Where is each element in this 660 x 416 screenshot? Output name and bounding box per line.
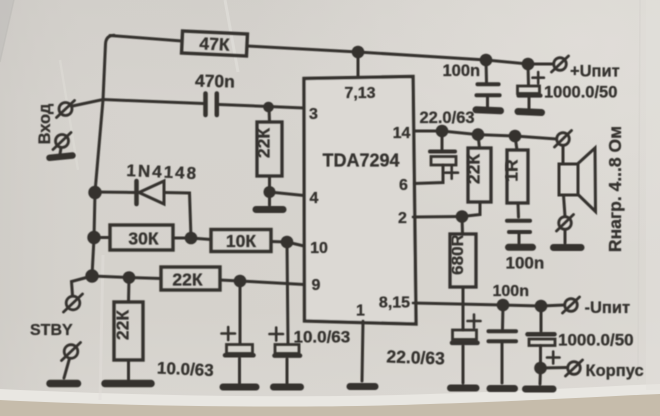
svg-text:STBY: STBY	[30, 322, 73, 339]
svg-text:2: 2	[398, 210, 407, 227]
capacitor 10.0/63 (pin 10) minus plate	[275, 353, 301, 358]
wire: speaker to lower terminal	[564, 195, 566, 217]
resistor 30K	[110, 225, 173, 250]
resistor 22K (feedback)	[468, 148, 491, 202]
capacitor 10.0/63 (pin 9) plus plate box	[227, 345, 253, 354]
wire: STBY node to switch terminal	[72, 276, 93, 296]
ground (pin 4 node)	[256, 206, 283, 213]
svg-text:47К: 47К	[199, 33, 230, 54]
wire: chassis node to ground	[539, 368, 543, 384]
capacitor 22.0/63 bootstrap plus plate box	[431, 157, 456, 166]
svg-text:14: 14	[393, 125, 411, 142]
svg-text:10.0/63: 10.0/63	[294, 328, 351, 347]
capacitor 22.0/63 (feedback) plus plate box	[453, 330, 477, 340]
svg-text:1000.0/50: 1000.0/50	[558, 331, 634, 350]
wire: 100n (-rail) top lead	[501, 305, 505, 329]
plus sign of bootstrap 22/63	[446, 167, 459, 179]
terminal input shield	[53, 133, 71, 150]
ground (input shield)	[50, 156, 73, 158]
wire: 22K pulldown to ground	[127, 360, 130, 379]
plus sign of pin10 10/63	[270, 328, 284, 341]
wire: 100n bypass to ground	[486, 97, 489, 107]
wire: 30K to node	[173, 237, 191, 240]
wire: 22K to pin9 node	[220, 280, 240, 281]
wire: left net to diode cathode	[95, 191, 136, 195]
diode 1N4148 triangle	[139, 181, 164, 204]
svg-text:1N4148: 1N4148	[126, 161, 198, 183]
wire: 1R to zobel 100n	[517, 203, 521, 217]
ground (under +rail 100n)	[476, 110, 501, 111]
wire: 470n to IC pin 3	[219, 105, 304, 109]
svg-text:6: 6	[399, 177, 408, 194]
capacitor 1000.0/50 (+rail) plus plate box	[518, 86, 540, 94]
wire: 10K to pin10 node	[271, 240, 287, 244]
wire: input to 470n	[73, 100, 204, 107]
wire: IC pin 1 to ground	[362, 321, 363, 381]
wire: 1000/50 to chassis node	[539, 346, 542, 369]
svg-text:22К: 22К	[113, 310, 133, 340]
capacitor 1000.0/50 (-rail) plus plate box	[529, 339, 555, 346]
capacitor 22.0/63 (feedback) minus plate	[452, 341, 478, 346]
terminal input signal	[57, 101, 75, 118]
capacitor 470n plates	[206, 94, 217, 116]
plus sign of +rail 1000/50	[533, 72, 544, 83]
wire: 22K feedback top lead	[478, 135, 480, 148]
svg-text:Rнагр. 4...8 Ом: Rнагр. 4...8 Ом	[605, 126, 625, 252]
ground (-rail 100n)	[490, 385, 515, 392]
wire: pin9 node to IC pin 9	[240, 281, 304, 285]
wire: 1R top lead	[515, 136, 517, 150]
plus sign of -rail 1000/50	[547, 352, 560, 364]
wire: riser from top rail to IC pins 7,13	[357, 52, 360, 79]
wire: chassis node to terminal	[541, 366, 568, 370]
svg-text:Вход: Вход	[36, 103, 54, 144]
svg-text:3: 3	[309, 106, 318, 123]
resistor 10K	[211, 230, 271, 252]
wire: 1000/50 (-rail) top lead	[540, 306, 543, 331]
capacitor 100n (zobel) plates	[507, 221, 530, 232]
ground (zobel)	[509, 244, 533, 251]
svg-text:22.0/63: 22.0/63	[386, 346, 445, 368]
resistor 47K	[182, 31, 248, 56]
svg-text:9: 9	[312, 277, 321, 294]
svg-text:TDA7294: TDA7294	[323, 151, 400, 171]
plus sign of pin9 10/63	[222, 327, 236, 340]
terminal STBY upper	[64, 294, 83, 312]
svg-text:1: 1	[356, 303, 365, 320]
capacitor 1000.0/50 (+rail) minus plate	[519, 94, 541, 98]
resistor 22K (pulldown)	[114, 302, 143, 360]
wire: pulldown node into 22K	[127, 278, 131, 303]
capacitor 10.0/63 (pin 10) plus plate box	[275, 345, 299, 354]
wire: STBY lower terminal to ground	[64, 359, 70, 379]
wire: 22K bottom to pin4 node	[268, 176, 271, 192]
ground (chassis node)	[526, 386, 554, 393]
wire: 22K feedback bottom to pin 2 node	[462, 202, 480, 217]
wire: pin10 node to IC pin 10	[287, 242, 304, 246]
wire: speaker lower terminal to ground	[564, 230, 567, 244]
capacitor 10.0/63 (pin 9) minus plate	[225, 353, 254, 358]
junction node dots	[85, 46, 547, 375]
ground (pin 9 cap)	[223, 384, 256, 391]
wire: pin2 node into 680R	[461, 217, 465, 235]
terminal speaker +	[555, 131, 572, 148]
resistor 1R	[507, 150, 528, 203]
svg-text:10К: 10К	[226, 231, 256, 251]
capacitor 1000.0/50 (-rail) minus plate	[528, 332, 555, 337]
speaker horn	[578, 148, 596, 212]
ground (22/63 cap)	[451, 385, 477, 392]
svg-text:30К: 30К	[128, 229, 158, 249]
wire: cap to ground	[238, 359, 241, 384]
capacitor 100n (-rail) plates	[489, 331, 517, 341]
wire: diode anode to 30K/10K node	[164, 193, 191, 239]
wire: pin9 node down to 10.0/63 cap	[239, 281, 242, 344]
svg-text:100n: 100n	[493, 283, 529, 300]
capacitor 1000.0/50 (+rail) lead	[527, 64, 531, 85]
resistor 22K (pin 3 bias)	[257, 122, 282, 176]
wire: node to 10K	[191, 238, 211, 240]
svg-text:470n: 470n	[195, 70, 235, 91]
wire: 1000/50 to ground	[528, 98, 531, 108]
svg-text:22.0/63: 22.0/63	[420, 109, 475, 127]
wire: IC pins 8,15 negative rail	[413, 303, 565, 306]
svg-text:10.0/63: 10.0/63	[157, 359, 215, 380]
svg-text:1000.0/50: 1000.0/50	[544, 84, 617, 102]
ground (pin 1)	[350, 383, 375, 390]
wire: pin10 node down to 10.0/63 cap	[287, 242, 288, 344]
terminal speaker -	[557, 215, 574, 232]
svg-text:Корпус: Корпус	[586, 362, 644, 380]
plus sign of feedback 22/63	[468, 315, 481, 328]
diode 1N4148 cathode bar	[134, 181, 139, 204]
svg-text:680R: 680R	[448, 234, 467, 275]
ground (STBY)	[50, 380, 78, 388]
svg-text:1R: 1R	[502, 159, 522, 182]
ground (22K pulldown)	[105, 380, 151, 388]
svg-text:100n: 100n	[443, 62, 481, 80]
terminal chassis	[566, 360, 583, 376]
svg-text:4: 4	[310, 190, 319, 207]
wire: 22/63 cap to ground	[462, 346, 465, 383]
ground (speaker)	[554, 244, 582, 251]
wire: bootstrap cap to IC pin 6	[414, 165, 443, 184]
terminal STBY lower	[62, 343, 81, 361]
svg-text:22К: 22К	[464, 154, 484, 184]
svg-text:7,13: 7,13	[344, 85, 375, 102]
wire: pin4 node to IC pin 4	[270, 192, 305, 196]
ground (under +rail 1000/50)	[518, 112, 542, 113]
ground (pin 10 cap)	[274, 384, 301, 391]
wire: terminal to speaker	[562, 146, 565, 165]
wire: 680R down across -U rail to 22/63 cap	[462, 287, 465, 330]
svg-text:10: 10	[310, 240, 328, 257]
wire: cap to ground	[286, 359, 289, 383]
speaker box	[559, 164, 578, 195]
wire: 100n to ground	[501, 344, 504, 384]
svg-text:100n: 100n	[506, 254, 545, 273]
wire: IC pin 14 output rail	[414, 131, 557, 139]
svg-text:-Uпит: -Uпит	[585, 299, 631, 317]
wire: bootstrap cap top lead	[441, 131, 444, 149]
wire: top rail from 47K to +U terminal	[247, 46, 554, 64]
wire: top rail left segment into 47K	[110, 36, 182, 42]
terminal +U	[552, 56, 569, 72]
wire: input shield to ground	[60, 148, 61, 154]
wire: pin4 node to ground	[268, 192, 271, 205]
wire: IC pin 2 to node	[413, 215, 462, 219]
wire: zobel cap to ground	[518, 234, 521, 244]
wire: left vertical pull-up net from top rail down to STBY row	[92, 35, 114, 276]
op-amp IC TDA7294 body	[304, 77, 416, 325]
svg-text:8,15: 8,15	[379, 295, 410, 312]
wire: pin3 node down into 22K	[268, 107, 272, 122]
svg-text:22К: 22К	[254, 128, 274, 158]
capacitor 100n (+rail bypass) top plate lead	[485, 60, 489, 82]
resistor 680R	[450, 234, 476, 287]
svg-text:22К: 22К	[172, 270, 202, 290]
terminal -U	[563, 297, 580, 313]
capacitor 22.0/63 bootstrap minus plate	[430, 150, 455, 154]
wire: left net to 30K	[94, 236, 110, 239]
svg-text:+Uпит: +Uпит	[570, 63, 620, 81]
capacitor 100n (+rail bypass) plates	[477, 84, 500, 95]
wire: STBY node to 22K pin9 resistor	[92, 276, 161, 279]
resistor 22K (pin 9)	[161, 267, 220, 290]
